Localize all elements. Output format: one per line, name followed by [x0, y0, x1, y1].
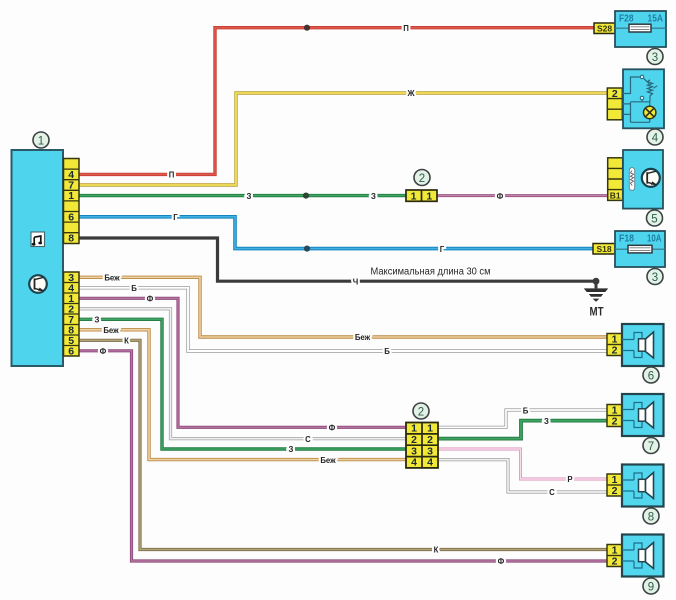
svg-text:Беж: Беж	[320, 456, 336, 465]
connector S28	[594, 23, 615, 34]
svg-text:Ф: Ф	[147, 295, 154, 304]
svg-text:2: 2	[612, 556, 618, 568]
svg-text:Г: Г	[173, 213, 178, 222]
svg-text:4: 4	[427, 457, 433, 469]
speaker 7 connector pins	[607, 405, 622, 428]
svg-text:B1: B1	[610, 190, 621, 200]
svg-text:2: 2	[427, 434, 433, 446]
svg-text:П: П	[403, 24, 409, 33]
wire violet Ф pin1 to connector 2 row1	[79, 298, 406, 427]
wire yellow Ж pin7 to component 4 pin 2	[79, 93, 608, 185]
svg-text:З: З	[247, 192, 252, 201]
svg-text:8: 8	[648, 511, 654, 523]
circled 5	[647, 210, 663, 226]
speaker 9 connector pins	[607, 545, 622, 568]
svg-text:П: П	[169, 171, 175, 180]
svg-text:1: 1	[411, 190, 417, 202]
circled 6	[643, 367, 659, 383]
svg-text:F28: F28	[619, 13, 634, 25]
svg-text:F18: F18	[619, 233, 634, 245]
wire brown К pin5 to speaker 9 pin1	[79, 340, 609, 549]
svg-text:Беж: Беж	[104, 274, 120, 283]
svg-text:Ч: Ч	[353, 277, 358, 286]
svg-text:S28: S28	[597, 23, 612, 33]
svg-text:2: 2	[612, 485, 618, 497]
wire black Ч pin8 to ground	[79, 238, 596, 281]
wire green З connector2 row2 to speaker 7 pin2	[438, 421, 608, 439]
head unit box U1 (radio)	[12, 150, 64, 366]
connector X2 bottom (4x2 grid)	[406, 423, 438, 469]
speaker 8 box	[622, 465, 664, 507]
speaker 6 connector pins	[607, 334, 622, 357]
svg-text:С: С	[305, 435, 311, 444]
svg-text:3: 3	[652, 52, 658, 64]
svg-text:6: 6	[648, 370, 654, 382]
svg-text:8: 8	[68, 233, 74, 245]
svg-text:Ф: Ф	[329, 424, 336, 433]
junction dot on red wire	[304, 25, 310, 31]
svg-text:3: 3	[652, 272, 658, 284]
circled 3 bottom	[647, 269, 663, 285]
svg-text:6: 6	[68, 211, 74, 223]
circled 7	[643, 438, 659, 454]
svg-text:Г: Г	[440, 245, 445, 254]
head unit top pin block	[64, 159, 80, 245]
wire beige Беж pin3 to speaker 6 pin1	[79, 277, 609, 337]
svg-text:2: 2	[418, 406, 424, 418]
svg-text:МТ: МТ	[590, 307, 604, 319]
antenna amplifier box 5	[623, 150, 663, 209]
svg-text:С: С	[549, 488, 555, 497]
svg-text:Ф: Ф	[100, 347, 107, 356]
speaker horn icon in head unit	[29, 275, 47, 293]
svg-text:6: 6	[68, 345, 74, 357]
svg-text:4: 4	[411, 457, 417, 469]
ground MT	[584, 278, 608, 319]
svg-text:Б: Б	[523, 406, 529, 415]
wire blue Г pin6 to S18	[79, 217, 594, 249]
svg-text:Б: Б	[384, 347, 390, 356]
music note icon	[31, 232, 45, 247]
svg-text:Ж: Ж	[406, 89, 415, 98]
circled 8	[643, 508, 659, 524]
wire grey С pin2 to connector 2 row2	[79, 309, 406, 439]
wire grey С connector2 row4 to speaker 8 pin2	[438, 460, 608, 492]
svg-text:Б: Б	[131, 284, 137, 293]
component 4 pin block	[607, 88, 622, 120]
junction dot on green wire	[303, 193, 309, 199]
svg-text:10A: 10A	[647, 233, 662, 245]
circled 4	[647, 129, 663, 145]
svg-text:Беж: Беж	[355, 333, 371, 342]
connector X2 top (1|1)	[406, 190, 437, 202]
svg-text:2: 2	[612, 345, 618, 357]
head unit bottom pin block	[64, 272, 80, 358]
svg-text:5: 5	[651, 213, 657, 225]
svg-text:1: 1	[38, 135, 44, 147]
svg-text:Максимальная длина 30 см: Максимальная длина 30 см	[371, 267, 491, 278]
svg-text:Беж: Беж	[103, 326, 119, 335]
circled 1	[33, 132, 49, 148]
circled 3 top	[647, 49, 663, 65]
wire violet Ф pin6 to speaker 9 pin2	[79, 351, 609, 561]
connector S18	[593, 244, 615, 255]
svg-text:4: 4	[652, 132, 659, 144]
svg-text:2: 2	[419, 173, 425, 185]
wire mauve Ф connector 2 to B1	[437, 194, 608, 197]
svg-text:Ф: Ф	[498, 557, 505, 566]
svg-text:3: 3	[427, 445, 433, 457]
svg-text:2: 2	[612, 88, 618, 100]
svg-text:Р: Р	[567, 475, 572, 484]
svg-text:З: З	[289, 445, 294, 454]
wire green З pin1 to connector 2	[79, 194, 406, 197]
circled 9	[643, 578, 659, 594]
wire beige Беж pin8 to connector 2 row4	[79, 330, 406, 460]
svg-text:9: 9	[648, 581, 654, 593]
svg-text:З: З	[371, 192, 376, 201]
wire green З pin7 to connector 2 row3	[79, 319, 406, 449]
speaker 9 box	[622, 535, 664, 577]
svg-text:К: К	[434, 546, 439, 555]
fuse F18 10A box	[615, 231, 665, 267]
svg-text:1: 1	[427, 423, 433, 435]
junction dot on blue wire	[304, 246, 310, 252]
svg-text:7: 7	[648, 441, 654, 453]
speaker 7 box	[622, 394, 664, 436]
svg-text:3: 3	[411, 445, 417, 457]
svg-text:Ф: Ф	[497, 192, 504, 201]
svg-text:S18: S18	[596, 244, 611, 254]
speaker 8 connector pins	[607, 474, 622, 497]
svg-text:1: 1	[426, 190, 432, 202]
speaker 6 box	[622, 324, 664, 366]
wire red П pin4 to S28	[79, 28, 595, 175]
component 5 pin block with B1	[608, 158, 623, 201]
svg-text:15A: 15A	[648, 13, 664, 25]
svg-text:2: 2	[411, 434, 417, 446]
svg-text:1: 1	[68, 190, 74, 202]
svg-text:З: З	[544, 417, 549, 426]
svg-text:З: З	[95, 316, 100, 325]
fuse F28 15A box	[615, 11, 666, 47]
lighting switch box 4	[622, 69, 664, 128]
wire white Б connector2 row1 to speaker 7 pin1	[438, 410, 608, 427]
svg-text:2: 2	[612, 416, 618, 428]
circled 2 bottom connector	[413, 403, 429, 419]
svg-text:1: 1	[411, 423, 417, 435]
wire white Б pin4 to speaker 6 pin2	[79, 288, 609, 351]
circled 2 top connector	[414, 170, 430, 186]
svg-text:К: К	[124, 337, 129, 346]
wire pink Р connector2 row3 to speaker 8 pin1	[438, 449, 608, 479]
